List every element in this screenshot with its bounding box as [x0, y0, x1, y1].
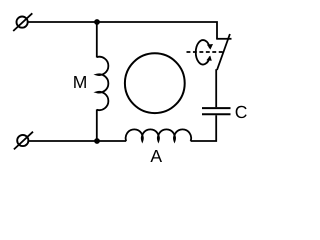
label A	[150, 146, 162, 166]
wire bottom	[29, 140, 126, 142]
switch blade (centrifugal, NC)	[217, 34, 230, 70]
label C	[235, 102, 248, 122]
wire M branch lower	[96, 109, 98, 141]
svg-text:M: M	[73, 72, 88, 92]
inductor A (auxiliary winding)	[126, 129, 192, 141]
terminal bottom-left (phase)	[14, 132, 33, 150]
dashed actuation line	[187, 51, 224, 53]
inductor M (main winding)	[97, 57, 109, 110]
svg-text:A: A	[150, 146, 162, 166]
capacitor C	[202, 108, 231, 114]
centrifugal actuator symbol (rotation arc with arrows)	[196, 40, 213, 64]
terminal top-left (phase)	[13, 13, 32, 31]
wire top	[28, 22, 217, 39]
motor circle	[125, 53, 185, 113]
wire switch to capacitor	[215, 69, 217, 107]
switch fixed contact seat	[216, 38, 231, 40]
label M	[73, 72, 88, 92]
node top junction	[94, 19, 100, 25]
svg-text:C: C	[235, 102, 248, 122]
wire capacitor to bottom	[191, 115, 217, 141]
node bottom junction	[94, 138, 100, 144]
wire M branch upper	[96, 22, 98, 58]
